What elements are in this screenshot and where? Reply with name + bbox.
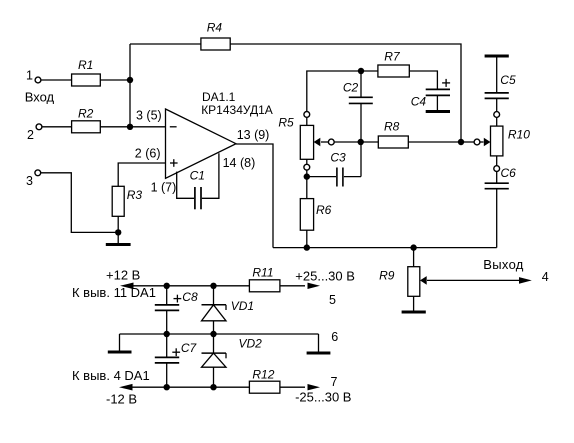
wire top node to R7 <box>361 70 378 72</box>
wire R3 to ground node <box>117 216 119 232</box>
wire R11 to arrow 5 <box>280 285 305 287</box>
wire terminal3 to ground node <box>41 173 119 233</box>
resistor R7 <box>378 50 409 78</box>
wire R7 to C4 <box>409 71 437 89</box>
ground terminal 6 <box>307 334 331 353</box>
bottom rail wire <box>273 247 497 249</box>
svg-text:R4: R4 <box>207 21 223 35</box>
svg-text:R2: R2 <box>78 106 94 120</box>
svg-text:Вход: Вход <box>25 90 55 105</box>
ground left of middle rail <box>108 334 132 352</box>
svg-text:C1: C1 <box>190 168 205 182</box>
node VD1 top junction <box>210 283 216 289</box>
svg-text:КР1434УД1А: КР1434УД1А <box>201 103 273 117</box>
svg-text:-25...30 В: -25...30 В <box>295 390 351 405</box>
resistor R12 <box>249 368 280 394</box>
node R8 R4 junction <box>458 139 464 145</box>
resistor R6 <box>300 199 331 231</box>
node R6 bottom junction <box>304 244 310 250</box>
terminal 3 <box>35 170 41 176</box>
node B junction <box>127 124 133 130</box>
middle ground rail <box>120 333 319 335</box>
zener diode VD2 <box>202 334 263 387</box>
svg-text:R3: R3 <box>127 188 143 202</box>
svg-text:5: 5 <box>329 293 336 307</box>
resistor R3 <box>112 186 142 216</box>
resistor R1 <box>72 58 101 86</box>
node VD2 top junction <box>210 331 216 337</box>
wire pin 14 (8) <box>202 153 219 198</box>
node -12V C7 junction <box>164 384 170 390</box>
svg-text:VD1: VD1 <box>231 299 254 313</box>
svg-text:R6: R6 <box>316 203 332 217</box>
wire terminal2 to R2 <box>42 126 72 128</box>
R10 wiper arrow <box>461 138 491 147</box>
arrow terminal 5 <box>308 283 321 289</box>
svg-text:C2: C2 <box>343 80 359 94</box>
resistor R8 <box>361 120 461 149</box>
svg-text:R8: R8 <box>384 120 400 134</box>
svg-text:R7: R7 <box>384 50 401 64</box>
svg-text:C4: C4 <box>411 94 427 108</box>
wire opamp output down to bottom rail <box>236 144 273 248</box>
wire R2 to opamp inverting input <box>100 126 165 128</box>
node A junction <box>127 77 133 83</box>
wire R1 to node A <box>100 79 130 81</box>
op-amp DA1.1 <box>166 90 273 178</box>
node R3 ground junction <box>115 229 121 235</box>
wire R12 to arrow 7 <box>280 386 305 388</box>
svg-text:1 (7): 1 (7) <box>151 181 177 195</box>
capacitor C1 <box>190 168 205 209</box>
zener diode VD1 <box>202 286 255 334</box>
node C8 top junction <box>164 283 170 289</box>
resistor R11 <box>249 266 280 292</box>
capacitor C3 <box>307 142 361 187</box>
svg-text:R5: R5 <box>278 115 294 129</box>
svg-text:DA1.1: DA1.1 <box>202 90 236 104</box>
-12V rail left arrow <box>119 384 133 391</box>
svg-text:1: 1 <box>26 69 33 83</box>
wire opamp noninverting input <box>118 163 165 186</box>
svg-text:R1: R1 <box>78 58 93 72</box>
svg-text:+25...30 В: +25...30 В <box>295 268 355 283</box>
svg-text:C6: C6 <box>501 166 517 180</box>
R5 wiper arrow <box>314 138 361 147</box>
svg-text:14 (8): 14 (8) <box>223 156 256 170</box>
capacitor C2 <box>343 71 373 142</box>
svg-text:4: 4 <box>542 270 549 284</box>
capacitor C4 polarized <box>411 79 450 111</box>
potentiometer R5 <box>300 112 313 199</box>
capacitor C5 <box>485 56 516 112</box>
R9 wiper arrow to output <box>420 276 532 285</box>
svg-text:2 (6): 2 (6) <box>135 146 161 160</box>
svg-text:C7: C7 <box>181 341 198 355</box>
wire R6 to bottom rail <box>306 230 308 247</box>
node C7 top junction <box>164 331 170 337</box>
wire terminal1 to R1 <box>41 79 72 81</box>
svg-text:3: 3 <box>26 174 33 188</box>
svg-text:-12 В: -12 В <box>106 392 137 407</box>
node C2 top junction <box>358 68 364 74</box>
svg-text:2: 2 <box>27 128 34 142</box>
wire top feedback to R4 <box>130 43 201 45</box>
capacitor C7 polarized <box>155 334 198 387</box>
capacitor C8 polarized <box>155 286 198 334</box>
svg-text:3 (5): 3 (5) <box>136 109 162 123</box>
svg-text:Выход: Выход <box>483 257 524 272</box>
svg-text:R11: R11 <box>252 266 273 280</box>
svg-text:R12: R12 <box>252 368 274 382</box>
node -12V VD2 junction <box>210 384 216 390</box>
wire R4 to right drop <box>230 44 461 142</box>
wire pin 1 (7) <box>177 172 194 199</box>
potentiometer R10 <box>491 112 531 172</box>
+12V rail wire <box>131 285 249 287</box>
potentiometer R9 <box>379 248 420 312</box>
svg-text:13 (9): 13 (9) <box>237 128 270 142</box>
-12V rail wire <box>130 386 249 388</box>
node R9 top junction <box>410 244 416 250</box>
svg-text:C3: C3 <box>330 151 346 165</box>
wire R5 riser to top node <box>307 71 361 114</box>
ground above C5 <box>485 55 509 58</box>
ground under R9 <box>402 311 426 314</box>
node R5 bottom junction <box>304 173 310 179</box>
ground under C4 <box>426 110 450 113</box>
svg-text:R10: R10 <box>508 128 530 142</box>
svg-text:R9: R9 <box>379 268 395 282</box>
terminal 1 <box>35 77 41 83</box>
resistor R4 <box>201 21 230 51</box>
wire node A to node B vertical <box>129 44 131 127</box>
node wiper C2 C3 junction <box>358 139 364 145</box>
svg-text:К выв. 11 DA1: К выв. 11 DA1 <box>72 285 156 300</box>
capacitor C6 <box>485 166 517 248</box>
svg-text:6: 6 <box>331 330 338 344</box>
+12V rail left arrow <box>120 283 134 290</box>
svg-text:+12 В: +12 В <box>106 268 140 283</box>
terminal 2 <box>36 124 42 130</box>
arrow terminal 7 <box>308 384 321 390</box>
svg-text:7: 7 <box>331 375 338 389</box>
ground under R3 <box>106 232 131 244</box>
svg-text:C5: C5 <box>500 73 516 87</box>
resistor R2 <box>72 106 101 132</box>
svg-text:C8: C8 <box>182 290 198 304</box>
svg-text:К выв. 4 DA1: К выв. 4 DA1 <box>72 368 150 383</box>
svg-text:VD2: VD2 <box>239 337 263 351</box>
